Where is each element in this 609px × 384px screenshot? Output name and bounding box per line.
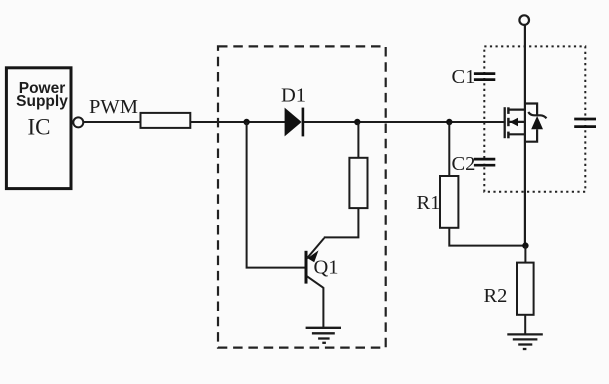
node junction at pull-down resistor (354, 119, 360, 125)
node junction at source / R2 (522, 242, 528, 248)
svg-text:C1: C1 (452, 66, 476, 88)
drain terminal circle (519, 15, 529, 25)
svg-text:C2: C2 (452, 153, 476, 175)
dashed box (driver circuit) (218, 46, 386, 347)
wire from junction down to resistor (357, 122, 359, 158)
dotted box (MOSFET package) (484, 46, 585, 191)
capacitor C1 (on dotted edge) (474, 74, 495, 80)
svg-text:Q1: Q1 (314, 257, 339, 279)
wire Q1 emitter down (322, 287, 324, 327)
wire R2 bottom to ground (524, 315, 526, 334)
resistor (pull-down, vertical) (349, 158, 367, 208)
ground (under Q1) (306, 328, 341, 343)
wire down to Q1 base (247, 122, 305, 268)
svg-text:Supply: Supply (16, 93, 68, 110)
capacitor C2 (on dotted edge) (474, 159, 495, 165)
wire from resistor to D1 anode (190, 121, 285, 123)
resistor R1 (440, 176, 458, 228)
svg-text:D1: D1 (281, 85, 306, 107)
main drain-source vertical wire (524, 25, 526, 246)
transistor Q1 (306, 238, 324, 288)
svg-text:R1: R1 (417, 192, 441, 214)
wire from D1 cathode across to gate (304, 121, 505, 123)
ground (under R2) (507, 334, 543, 349)
wire down to R1 (448, 122, 450, 176)
svg-text:R2: R2 (484, 285, 508, 307)
node junction at gate / R1 (446, 119, 452, 125)
MOSFET Q (N-channel with body diode) (505, 107, 525, 138)
power supply IC box (6, 68, 71, 189)
svg-text:IC: IC (28, 115, 51, 140)
resistor (gate series, horizontal) (141, 113, 191, 128)
PWM output terminal circle (73, 117, 83, 127)
svg-text:PWM: PWM (89, 96, 138, 118)
wire from terminal to gate resistor (84, 121, 141, 123)
MOSFET body diode (525, 104, 547, 142)
wire R1 bottom to source node (449, 228, 525, 246)
resistor R2 (517, 263, 534, 315)
wire down to R2 (524, 246, 526, 263)
capacitor Cds (on dotted right edge) (574, 119, 596, 127)
node junction at base branch (243, 119, 249, 125)
diode D1 (285, 108, 303, 137)
wire from resistor to Q1 collector (324, 208, 359, 237)
